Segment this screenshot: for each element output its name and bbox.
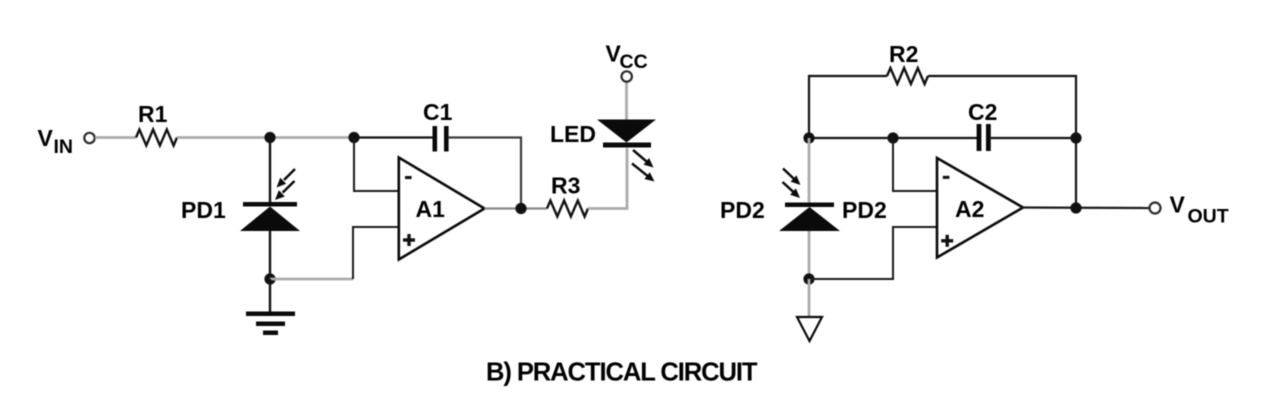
ground arrow bbox=[797, 317, 822, 341]
label PD1 bbox=[181, 197, 226, 223]
wire A1 inverting to C1 bbox=[354, 136, 433, 138]
wire R1 to inverting node bbox=[177, 136, 354, 139]
svg-text:PD2: PD2 bbox=[720, 197, 765, 223]
label PD2 right bbox=[842, 197, 887, 223]
node VCC terminal bbox=[622, 71, 632, 81]
svg-text:R3: R3 bbox=[551, 173, 580, 199]
wire PD1 bottom lead bbox=[269, 231, 271, 279]
svg-text:CC: CC bbox=[620, 51, 648, 73]
wire VIN to R1 bbox=[95, 136, 136, 139]
node junction A1 output bbox=[515, 203, 526, 214]
A1 plus pin bbox=[403, 234, 415, 246]
capacitor C2 bbox=[977, 124, 991, 151]
label PD2 left bbox=[720, 197, 765, 223]
label R1 bbox=[138, 101, 168, 127]
ground bbox=[246, 312, 295, 336]
node junction A1 inverting bbox=[348, 132, 359, 143]
wire LED to VCC bbox=[625, 83, 628, 120]
label A2 bbox=[955, 196, 984, 222]
node junction PD1 top bbox=[264, 132, 275, 143]
svg-text:PD2: PD2 bbox=[842, 197, 887, 223]
wire A2 output bbox=[1022, 206, 1149, 209]
wire C1 to output corner bbox=[449, 138, 521, 204]
wire PD2 top lead bbox=[808, 138, 811, 203]
label R3 bbox=[551, 173, 580, 199]
label C2 bbox=[968, 99, 997, 125]
diode LED bbox=[597, 120, 656, 148]
op-amp A2 bbox=[937, 158, 1023, 258]
label VOUT bbox=[1170, 192, 1229, 228]
photodiode PD1 bbox=[240, 202, 300, 231]
node junction PD2 bottom bbox=[803, 273, 814, 284]
label R2 bbox=[889, 41, 918, 67]
light arrows out of LED bbox=[632, 150, 655, 182]
svg-text:V: V bbox=[38, 125, 54, 151]
svg-text:R2: R2 bbox=[889, 41, 918, 67]
capacitor C1 bbox=[433, 126, 449, 152]
resistor R3 bbox=[547, 201, 588, 217]
op-amp A1 bbox=[399, 158, 485, 260]
wire PD1 to ground bbox=[269, 279, 271, 313]
svg-text:R1: R1 bbox=[138, 101, 168, 127]
wire A1 output bbox=[485, 207, 548, 209]
svg-text:OUT: OUT bbox=[1188, 206, 1229, 228]
label VIN bbox=[38, 125, 74, 158]
caption B) PRACTICAL CIRCUIT bbox=[486, 359, 758, 387]
wire C2 to right rail bbox=[991, 137, 1076, 139]
node junction A2 output bbox=[1070, 202, 1081, 213]
resistor R2 bbox=[887, 68, 928, 84]
light arrows into PD2 bbox=[783, 169, 801, 199]
A2 minus pin bbox=[943, 176, 950, 179]
svg-text:V: V bbox=[1170, 192, 1186, 218]
wire PD2 to ground arrow bbox=[808, 279, 811, 317]
light arrows into PD1 bbox=[275, 169, 295, 200]
resistor R1 bbox=[136, 130, 177, 146]
wire PD1 bottom to A1 noninverting bbox=[270, 278, 353, 281]
svg-text:A1: A1 bbox=[416, 196, 446, 222]
node VIN terminal bbox=[84, 133, 94, 143]
wire A1 inverting input bbox=[354, 138, 399, 192]
wire R2 top loop bbox=[809, 76, 887, 138]
svg-text:C1: C1 bbox=[423, 99, 453, 125]
wire A2 inverting input bbox=[893, 138, 938, 191]
svg-text:LED: LED bbox=[550, 121, 596, 147]
wire feedback mid rail bbox=[809, 137, 977, 139]
wire PD2 bottom lead bbox=[808, 231, 811, 279]
svg-text:C2: C2 bbox=[968, 99, 997, 125]
wire R2 to output corner bbox=[928, 76, 1076, 208]
photodiode PD2 bbox=[779, 203, 840, 232]
node VOUT terminal bbox=[1150, 203, 1161, 214]
svg-text:B) PRACTICAL CIRCUIT: B) PRACTICAL CIRCUIT bbox=[486, 359, 758, 387]
label A1 bbox=[416, 196, 446, 222]
svg-text:IN: IN bbox=[54, 136, 74, 158]
svg-text:PD1: PD1 bbox=[181, 197, 226, 223]
A2 plus pin bbox=[941, 235, 953, 247]
wire PD1 top lead bbox=[269, 138, 271, 204]
A1 minus pin bbox=[405, 176, 412, 179]
svg-text:A2: A2 bbox=[955, 196, 984, 222]
label VCC bbox=[606, 41, 648, 74]
wire R3 to LED bbox=[588, 148, 627, 209]
node junction C2 right bbox=[1070, 132, 1081, 143]
wire A1 noninverting input bbox=[353, 227, 399, 279]
node junction A2 inverting bbox=[887, 132, 898, 143]
label C1 bbox=[423, 99, 453, 125]
wire PD2 bottom to A2 noninverting bbox=[809, 227, 938, 279]
label LED bbox=[550, 121, 596, 147]
node junction PD1 bottom bbox=[264, 273, 275, 284]
node junction PD2 top bbox=[803, 132, 814, 143]
